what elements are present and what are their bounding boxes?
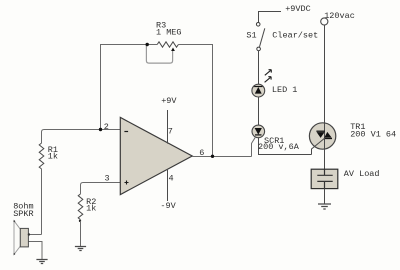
svg-text:1k: 1k	[48, 152, 58, 162]
svg-text:AV Load: AV Load	[344, 169, 380, 179]
svg-text:7: 7	[168, 126, 173, 136]
svg-text:4: 4	[169, 174, 174, 184]
svg-text:S1: S1	[246, 31, 256, 41]
svg-text:-9V: -9V	[160, 201, 176, 211]
svg-text:1k: 1k	[86, 203, 96, 213]
svg-text:3: 3	[105, 173, 110, 183]
svg-text:1 MEG: 1 MEG	[156, 28, 182, 38]
svg-text:LED 1: LED 1	[272, 85, 298, 95]
svg-text:200 v,6A: 200 v,6A	[258, 142, 300, 152]
svg-text:6: 6	[199, 148, 204, 158]
svg-text:Clear/set: Clear/set	[272, 31, 318, 41]
svg-text:2: 2	[104, 122, 109, 132]
svg-text:+9V: +9V	[161, 96, 177, 106]
svg-text:+9VDC: +9VDC	[285, 4, 311, 14]
svg-text:120vac: 120vac	[324, 11, 355, 21]
svg-text:200 V1 64: 200 V1 64	[350, 129, 396, 139]
svg-text:SPKR: SPKR	[13, 209, 33, 219]
